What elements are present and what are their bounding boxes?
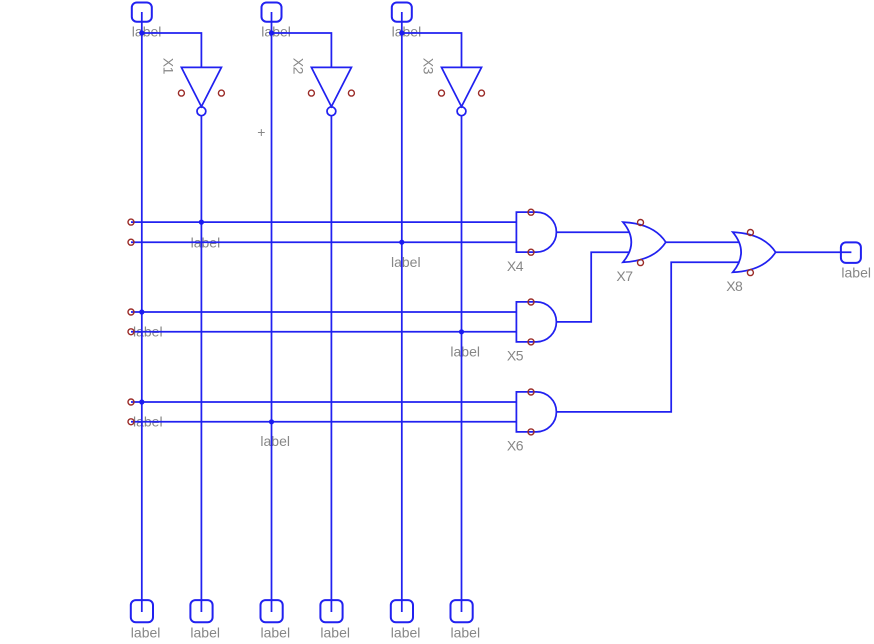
inverter X1 xyxy=(181,67,221,115)
svg-text:X7: X7 xyxy=(616,268,633,284)
input terminal box 1 xyxy=(132,3,152,22)
junction dot rail F / row4 xyxy=(459,329,464,334)
svg-text:X4: X4 xyxy=(507,258,524,274)
bottom terminal box 4 xyxy=(320,600,342,622)
wire rail A vertical xyxy=(141,12,143,612)
wire rail D vertical (X2 output) xyxy=(330,116,332,612)
junction dot rail C / row6 xyxy=(269,419,274,424)
pin circle X6 bottom xyxy=(528,429,534,435)
pin circle X4 bottom xyxy=(528,249,534,255)
svg-text:X1: X1 xyxy=(161,58,177,75)
bottom terminal box 2 xyxy=(190,600,212,622)
junction dot rail A / row5 xyxy=(139,399,144,404)
pin circle X3 right xyxy=(479,90,485,96)
pin circle X7 top xyxy=(638,220,644,226)
svg-text:label: label xyxy=(450,344,480,360)
svg-text:label: label xyxy=(392,24,422,40)
pin circle X3 left xyxy=(439,90,445,96)
wire row3 (X5 input A) xyxy=(131,311,516,313)
wire rail E vertical xyxy=(401,12,403,612)
svg-text:label: label xyxy=(391,625,421,641)
svg-text:label: label xyxy=(320,625,350,641)
wire X7 output to X8 input 1 xyxy=(666,241,739,243)
wire row2 (X4 input B) xyxy=(131,241,516,243)
svg-text:X5: X5 xyxy=(507,348,524,364)
junction dot rail C / X2 branch xyxy=(269,30,274,35)
pin circle X7 bottom xyxy=(638,260,644,266)
pin circle X2 left xyxy=(308,90,314,96)
svg-text:label: label xyxy=(451,625,481,641)
bottom terminal box 6 xyxy=(451,600,473,622)
pin circle X2 right xyxy=(348,90,354,96)
svg-text:label: label xyxy=(131,625,161,641)
output terminal box xyxy=(841,242,861,263)
open wire end row6 xyxy=(128,419,134,425)
junction dot rail E / X3 branch xyxy=(399,30,404,35)
svg-text:label: label xyxy=(391,254,421,270)
junction dot rail A / row3 xyxy=(139,309,144,314)
open wire end row1 xyxy=(128,219,134,225)
wire X5 output to X7 input 2 xyxy=(557,252,630,322)
wire branch to X1 input xyxy=(142,33,202,67)
wire rail F vertical (X3 output) xyxy=(461,116,463,612)
pin circle X8 bottom xyxy=(747,270,753,276)
svg-text:+: + xyxy=(257,124,265,140)
svg-text:label: label xyxy=(260,433,290,449)
and gate X5 xyxy=(516,302,556,342)
open wire end row3 xyxy=(128,309,134,315)
open wire end row4 xyxy=(128,329,134,335)
wire branch to X3 input xyxy=(402,33,462,67)
pin circle X8 top xyxy=(747,230,753,236)
inverter X2 xyxy=(311,67,351,115)
svg-text:label: label xyxy=(841,264,871,280)
wire row4 (X5 input B) xyxy=(131,331,516,333)
or gate X8 xyxy=(733,232,776,272)
open wire end row2 xyxy=(128,239,134,245)
bottom terminal box 5 xyxy=(391,600,413,622)
inverter X3 xyxy=(442,67,482,115)
svg-text:label: label xyxy=(261,24,291,40)
pin circle X5 top xyxy=(528,299,534,305)
wire X8 output to output terminal xyxy=(776,251,852,253)
pin circle X1 left xyxy=(178,90,184,96)
open wire end row5 xyxy=(128,399,134,405)
bottom terminal box 3 xyxy=(261,600,283,622)
and gate X6 xyxy=(516,392,556,432)
pin circle X5 bottom xyxy=(528,339,534,345)
pin circle X1 right xyxy=(218,90,224,96)
svg-text:label: label xyxy=(132,24,162,40)
svg-text:label: label xyxy=(261,625,291,641)
wire X4 output to X7 input 1 xyxy=(557,231,630,233)
wire rail B vertical (X1 output) xyxy=(200,116,202,612)
input terminal box 2 xyxy=(262,3,282,22)
svg-text:X2: X2 xyxy=(291,58,307,75)
junction dot rail B / row1 xyxy=(199,220,204,225)
wire row5 (X6 input A) xyxy=(131,401,516,403)
pin circle X6 top xyxy=(528,389,534,395)
junction dot rail E / row2 xyxy=(399,240,404,245)
wire rail C vertical xyxy=(271,12,273,612)
wire row1 (X4 input A) xyxy=(131,221,516,223)
bottom terminal box 1 xyxy=(131,600,153,622)
svg-text:X8: X8 xyxy=(726,278,743,294)
input terminal box 3 xyxy=(392,3,412,22)
pin circle X4 top xyxy=(528,209,534,215)
svg-text:X6: X6 xyxy=(507,438,524,454)
or gate X7 xyxy=(623,222,666,262)
and gate X4 xyxy=(516,212,556,252)
junction dot rail A / X1 branch xyxy=(139,30,144,35)
svg-text:X3: X3 xyxy=(421,58,437,75)
wire branch to X2 input xyxy=(272,33,332,67)
svg-text:label: label xyxy=(190,625,220,641)
wire row6 (X6 input B) xyxy=(131,421,516,423)
wire X6 output to X8 input 2 xyxy=(557,262,740,412)
